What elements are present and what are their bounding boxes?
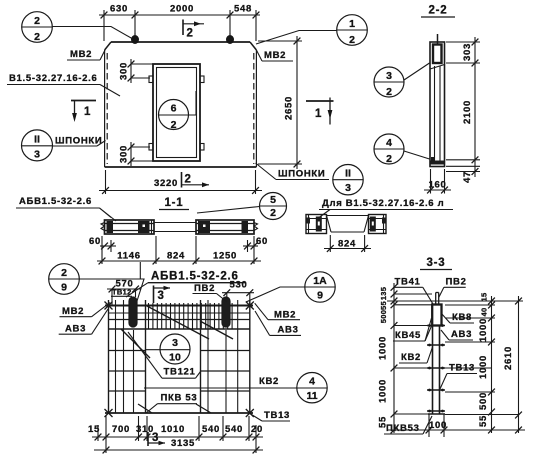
label PV2 section	[439, 277, 467, 298]
keys circle II/3 right	[333, 165, 363, 195]
svg-text:160: 160	[429, 180, 447, 191]
svg-text:300: 300	[119, 62, 130, 80]
section mark 2 bottom	[182, 172, 210, 188]
leader 4/2 to member	[404, 151, 430, 159]
svg-text:60: 60	[256, 236, 268, 247]
svg-text:548: 548	[234, 4, 252, 15]
svg-text:135: 135	[379, 287, 388, 300]
svg-text:2: 2	[349, 34, 355, 46]
right bar 1-1	[196, 220, 258, 234]
extension stub above loop	[139, 262, 141, 279]
svg-text:540: 540	[225, 424, 243, 435]
lintel dense verticals	[149, 303, 233, 329]
label TB13 section	[440, 363, 477, 390]
svg-text:3220: 3220	[154, 178, 178, 189]
top dim extension loop2	[229, 10, 231, 33]
svg-text:2: 2	[386, 153, 392, 165]
svg-text:4: 4	[386, 137, 392, 149]
svg-text:303: 303	[462, 43, 473, 61]
svg-text:2: 2	[386, 86, 392, 98]
label SHPONKI right	[256, 163, 330, 180]
far right dim 2610	[503, 296, 522, 433]
svg-text:АВ3: АВ3	[65, 324, 86, 335]
right inner dim chain 3-3	[445, 296, 519, 433]
svg-text:47: 47	[462, 171, 473, 183]
section mark 2 top	[183, 20, 204, 40]
svg-text:ПВ2: ПВ2	[194, 283, 215, 294]
svg-text:6: 6	[171, 103, 177, 115]
callout circle 4/2	[374, 134, 404, 165]
svg-text:II: II	[345, 168, 351, 180]
svg-text:3: 3	[345, 182, 351, 194]
mesh horizontals left part	[109, 350, 146, 352]
svg-text:700: 700	[112, 424, 130, 435]
svg-text:2100: 2100	[462, 100, 473, 124]
leader 1A/9 to mesh	[246, 287, 305, 302]
plan lifting loop right	[222, 297, 230, 327]
dim 100 bottom 3-3	[426, 414, 448, 437]
svg-text:АВ3: АВ3	[278, 325, 299, 336]
svg-text:2-2: 2-2	[428, 5, 447, 17]
door tab bottom-left	[149, 144, 153, 151]
label TB41	[393, 277, 433, 305]
svg-text:Для В1.5-32.27.16-2.6 л: Для В1.5-32.27.16-2.6 л	[322, 198, 444, 209]
top plate 3-3	[436, 293, 439, 306]
label B1.5-32.27.16-2.6	[7, 73, 120, 96]
crossbar y345	[427, 344, 445, 347]
plan bottom dim row2 3135	[94, 438, 263, 453]
dim 530	[222, 280, 254, 306]
bottom dim line 3-3	[387, 429, 525, 431]
svg-text:КВ2: КВ2	[401, 352, 421, 363]
svg-text:9: 9	[61, 282, 67, 294]
svg-text:1А: 1А	[313, 275, 327, 287]
label PKV53	[384, 416, 432, 434]
svg-text:3135: 3135	[171, 438, 195, 449]
panel top-left chamfer	[105, 42, 111, 50]
title 1-1	[159, 197, 189, 210]
svg-text:II: II	[34, 134, 40, 146]
panel right key line (dashed)	[253, 53, 255, 164]
svg-text:15: 15	[480, 293, 489, 302]
leader from circle 2/2 to loop	[52, 27, 132, 39]
label TB12	[111, 288, 132, 297]
svg-text:20: 20	[251, 424, 263, 435]
svg-text:1: 1	[315, 108, 322, 120]
member bottom 3-3	[428, 413, 445, 415]
leader from circle 1/2 to panel corner	[256, 31, 337, 45]
svg-text:2: 2	[185, 174, 192, 186]
svg-text:530: 530	[230, 280, 248, 291]
svg-text:АВ3: АВ3	[451, 329, 472, 340]
label KB2 section	[399, 347, 433, 363]
crossbar y411	[427, 410, 445, 413]
svg-text:824: 824	[167, 251, 185, 262]
svg-text:ТВ121: ТВ121	[164, 367, 196, 378]
callout circle 3/10	[145, 334, 190, 364]
svg-text:МВ2: МВ2	[264, 50, 286, 61]
svg-text:2: 2	[34, 15, 40, 27]
diagonal brace lintel	[147, 306, 209, 339]
label MB2 right	[256, 50, 293, 61]
leader 2/9 to loop	[79, 279, 144, 301]
label TB121	[128, 332, 201, 378]
svg-text:1000: 1000	[378, 336, 389, 360]
leader 3/2 to member	[404, 63, 430, 80]
svg-text:15: 15	[88, 424, 100, 435]
label AB3 plan right	[255, 311, 301, 336]
label SHPONKI left	[53, 136, 106, 147]
svg-text:500: 500	[379, 310, 388, 323]
mesh verticals right	[200, 300, 202, 413]
callout circle 2/9	[49, 264, 80, 295]
lifting loop left	[131, 33, 139, 44]
callout circle 6/2	[159, 100, 189, 132]
diagonal brace left	[121, 329, 150, 358]
svg-text:МВ2: МВ2	[62, 306, 84, 317]
svg-text:2: 2	[61, 267, 67, 279]
svg-text:ПВ2: ПВ2	[446, 277, 467, 288]
dim 570	[107, 279, 141, 306]
svg-text:4: 4	[309, 376, 315, 388]
dim 2650	[258, 36, 302, 169]
mesh verticals left	[108, 300, 110, 413]
svg-text:2000: 2000	[170, 4, 194, 15]
svg-text:3: 3	[34, 148, 40, 160]
bottom dim 3220	[99, 170, 262, 194]
panel left edge	[104, 50, 106, 167]
svg-text:КВ2: КВ2	[259, 376, 279, 387]
svg-text:10: 10	[169, 352, 181, 364]
svg-text:1-1: 1-1	[164, 197, 183, 209]
label KB2 plan	[144, 376, 297, 388]
label PV2 plan	[193, 283, 228, 302]
label KB8	[441, 312, 474, 323]
svg-text:АБВ1.5-32-2.6: АБВ1.5-32-2.6	[19, 196, 92, 207]
variant right piece	[369, 215, 387, 234]
section mark 1 right	[306, 98, 334, 125]
top dim extension right corner	[255, 10, 257, 41]
label AB3 plan left	[59, 309, 108, 335]
label MB2 plan left	[60, 303, 111, 318]
leader 6/2 to door frame	[189, 91, 197, 115]
svg-text:1000: 1000	[378, 379, 389, 403]
label PKV 53	[146, 393, 197, 414]
door tab top-left	[149, 76, 153, 83]
svg-text:ПКВ 53: ПКВ 53	[161, 393, 198, 404]
keys circle II/3 left	[22, 130, 53, 161]
svg-text:2: 2	[270, 207, 276, 219]
plan lifting loop left	[129, 297, 137, 327]
diagonal brace right short	[200, 321, 233, 339]
door opening inner rect	[157, 68, 197, 158]
crossbar y368	[427, 367, 445, 370]
door tab bottom-right	[200, 144, 204, 151]
section mark 1 left	[71, 101, 96, 123]
label MB2 left	[67, 49, 105, 60]
svg-text:100: 100	[429, 420, 447, 431]
top level line 3-3	[387, 300, 523, 302]
svg-text:ШПОНКИ: ШПОНКИ	[278, 169, 325, 180]
svg-text:55: 55	[379, 301, 388, 310]
label Dlya B1.5-32.27.16-2.6 l	[317, 198, 453, 219]
panel bottom edge	[105, 166, 257, 168]
top embed 2-2	[430, 34, 445, 69]
svg-text:КВ45: КВ45	[395, 330, 421, 341]
title ABV1.5-32-2.6	[126, 271, 245, 298]
svg-text:ШПОНКИ: ШПОНКИ	[55, 136, 102, 147]
member verticals 3-3	[432, 326, 434, 415]
svg-text:МВ2: МВ2	[274, 310, 296, 321]
callout circle 1/2	[337, 15, 368, 46]
panel top-right chamfer	[250, 42, 256, 50]
door tab top-right	[200, 76, 204, 83]
svg-text:3: 3	[152, 432, 159, 444]
title 2-2	[421, 5, 455, 18]
panel top edge	[111, 41, 250, 43]
callout circle 5/2	[260, 193, 287, 220]
label KB45	[393, 318, 432, 341]
svg-text:ТВ12: ТВ12	[112, 288, 132, 297]
svg-text:55: 55	[478, 415, 489, 427]
left bar 1-1	[101, 220, 154, 234]
svg-text:АБВ1.5-32-2.6: АБВ1.5-32-2.6	[151, 271, 239, 283]
svg-text:3: 3	[172, 337, 178, 349]
svg-text:1000: 1000	[478, 318, 489, 342]
member inner wall lines	[434, 66, 436, 161]
svg-text:5: 5	[270, 194, 276, 206]
crossbar y390	[427, 389, 445, 392]
label TB13 plan	[249, 410, 290, 421]
callout circle 4/11	[297, 373, 327, 403]
label AB3 section	[441, 329, 473, 340]
svg-text:ТВ41: ТВ41	[395, 277, 421, 288]
leader 5/2 to bar	[197, 207, 260, 214]
svg-text:В1.5-32.27.16-2.6: В1.5-32.27.16-2.6	[9, 73, 97, 84]
dim 160 bottom 2-2	[424, 169, 451, 194]
top dimension line	[99, 14, 260, 16]
lifting loop right	[226, 33, 234, 44]
dims 1-1	[97, 236, 261, 264]
right dim chain 2-2	[446, 37, 480, 177]
svg-text:300: 300	[119, 145, 130, 163]
svg-text:40: 40	[480, 308, 489, 317]
section mark 3 bottom	[148, 432, 165, 446]
svg-text:1250: 1250	[213, 251, 237, 262]
svg-text:3: 3	[158, 290, 165, 302]
svg-text:9: 9	[317, 290, 323, 302]
svg-text:2610: 2610	[503, 346, 514, 370]
member outline 2-2	[430, 42, 445, 167]
mesh horizontals right part	[201, 350, 250, 352]
svg-text:2: 2	[171, 119, 177, 131]
svg-text:ПКВ53: ПКВ53	[386, 423, 420, 434]
svg-text:500: 500	[478, 392, 489, 410]
svg-text:630: 630	[110, 4, 128, 15]
corner X marks	[105, 302, 254, 418]
svg-text:ТВ13: ТВ13	[264, 410, 290, 421]
label ABV1.5-32-2.6 small	[16, 196, 116, 221]
plan bottom dim row1	[92, 416, 263, 453]
opening lines between bars	[154, 222, 196, 224]
panel right edge	[255, 50, 257, 167]
bottom embed 2-2	[431, 157, 445, 165]
svg-text:540: 540	[202, 424, 220, 435]
svg-text:2: 2	[187, 28, 194, 40]
variant dim 824	[324, 235, 371, 252]
door opening outer rect	[153, 64, 200, 161]
opening bottom corner braces	[138, 404, 152, 413]
top dim extension left corner	[103, 10, 105, 41]
variant left piece	[306, 215, 327, 234]
dim 300 top	[119, 59, 154, 83]
top dim ticks	[101, 12, 108, 19]
svg-text:1146: 1146	[117, 251, 140, 262]
svg-text:МВ2: МВ2	[70, 49, 92, 60]
svg-text:3: 3	[386, 70, 392, 82]
title 3-3	[420, 257, 452, 270]
top embed 3-3	[432, 305, 441, 326]
panel left key line (dashed)	[106, 53, 108, 164]
variant opening chamfer	[327, 216, 369, 233]
callout circle 3/2	[374, 67, 404, 98]
svg-text:1010: 1010	[161, 424, 185, 435]
crossbar y328	[427, 324, 445, 327]
mesh horizontals full	[105, 305, 253, 307]
left dim chain 3-3	[391, 283, 432, 433]
svg-text:2650: 2650	[284, 96, 295, 120]
callout circle 2/2	[22, 12, 53, 43]
svg-text:60: 60	[89, 236, 101, 247]
dim 300 bottom	[119, 142, 154, 166]
label MB2 plan right	[255, 303, 300, 320]
svg-text:824: 824	[338, 239, 356, 250]
svg-text:1: 1	[349, 18, 355, 30]
top dim extension loop1	[134, 10, 136, 33]
svg-text:11: 11	[306, 390, 317, 402]
svg-text:3-3: 3-3	[426, 257, 445, 269]
svg-text:2: 2	[34, 31, 40, 43]
svg-text:1000: 1000	[478, 355, 489, 379]
section mark 3 top	[154, 286, 171, 304]
callout circle 1A/9	[305, 272, 335, 302]
svg-text:1: 1	[84, 106, 91, 118]
